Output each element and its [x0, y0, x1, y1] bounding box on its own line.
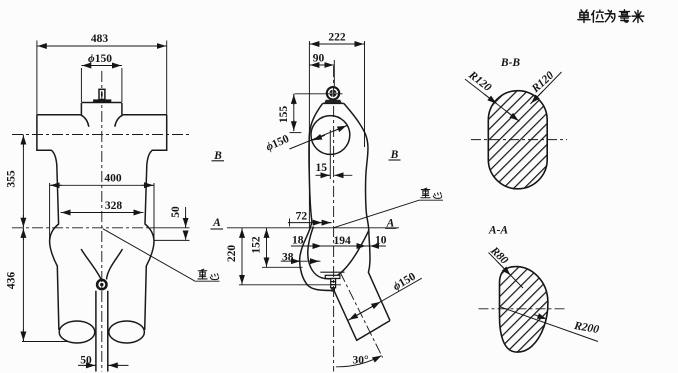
svg-text:ϕ150: ϕ150 — [88, 53, 112, 65]
svg-text:222: 222 — [328, 32, 346, 44]
svg-text:155: 155 — [278, 106, 290, 124]
svg-text:A-A: A-A — [488, 225, 509, 237]
svg-text:38: 38 — [282, 252, 294, 264]
svg-text:220: 220 — [226, 245, 238, 263]
svg-text:10: 10 — [375, 235, 387, 247]
svg-text:400: 400 — [104, 173, 122, 185]
svg-text:328: 328 — [105, 200, 123, 212]
svg-text:355: 355 — [6, 170, 18, 188]
svg-text:B: B — [390, 149, 399, 161]
svg-text:50: 50 — [170, 206, 182, 218]
svg-text:B: B — [213, 150, 222, 162]
svg-text:194: 194 — [333, 235, 351, 247]
svg-text:30°: 30° — [352, 355, 369, 367]
svg-text:15: 15 — [316, 162, 328, 174]
svg-text:72: 72 — [296, 211, 308, 223]
svg-text:90: 90 — [313, 53, 325, 65]
svg-text:A: A — [212, 217, 221, 229]
svg-text:A: A — [386, 218, 395, 230]
svg-text:50: 50 — [80, 355, 92, 367]
svg-text:18: 18 — [292, 235, 304, 247]
svg-text:483: 483 — [91, 33, 109, 45]
svg-text:B-B: B-B — [500, 57, 521, 69]
svg-text:152: 152 — [250, 236, 262, 254]
svg-text:436: 436 — [6, 272, 18, 290]
